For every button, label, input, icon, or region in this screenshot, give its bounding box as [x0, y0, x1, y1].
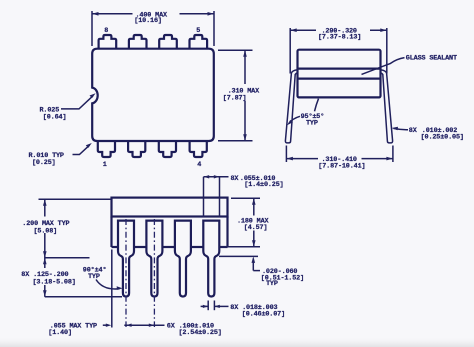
svg-text:[5.08]: [5.08]: [34, 227, 58, 235]
svg-text:4: 4: [197, 161, 201, 169]
svg-text:[0.64]: [0.64]: [43, 114, 67, 122]
svg-text:[10.16]: [10.16]: [134, 17, 162, 25]
svg-text:[7.87]: [7.87]: [223, 94, 247, 102]
svg-text:GLASS SEALANT: GLASS SEALANT: [406, 54, 457, 62]
svg-text:[7.87-10.41]: [7.87-10.41]: [318, 163, 365, 171]
svg-text:1: 1: [103, 161, 107, 169]
svg-text:[0.25]: [0.25]: [32, 159, 56, 167]
svg-text:[7.37-8.13]: [7.37-8.13]: [318, 34, 361, 42]
svg-text:[0.25±0.05]: [0.25±0.05]: [421, 133, 464, 141]
svg-text:[1.4±0.25]: [1.4±0.25]: [244, 181, 283, 189]
svg-text:TYP: TYP: [306, 120, 318, 128]
svg-text:8: 8: [104, 27, 108, 35]
svg-text:8X: 8X: [231, 175, 240, 183]
svg-text:[3.18-5.08]: [3.18-5.08]: [33, 278, 76, 286]
svg-text:5: 5: [196, 27, 200, 35]
svg-text:8X: 8X: [409, 127, 418, 135]
svg-text:[2.54±0.25]: [2.54±0.25]: [179, 329, 222, 337]
svg-text:TYP: TYP: [88, 273, 100, 281]
svg-text:[4.57]: [4.57]: [244, 224, 268, 232]
svg-text:[0.46±0.07]: [0.46±0.07]: [242, 311, 285, 319]
svg-text:[1.40]: [1.40]: [48, 329, 72, 337]
svg-text:TYP: TYP: [266, 280, 278, 288]
